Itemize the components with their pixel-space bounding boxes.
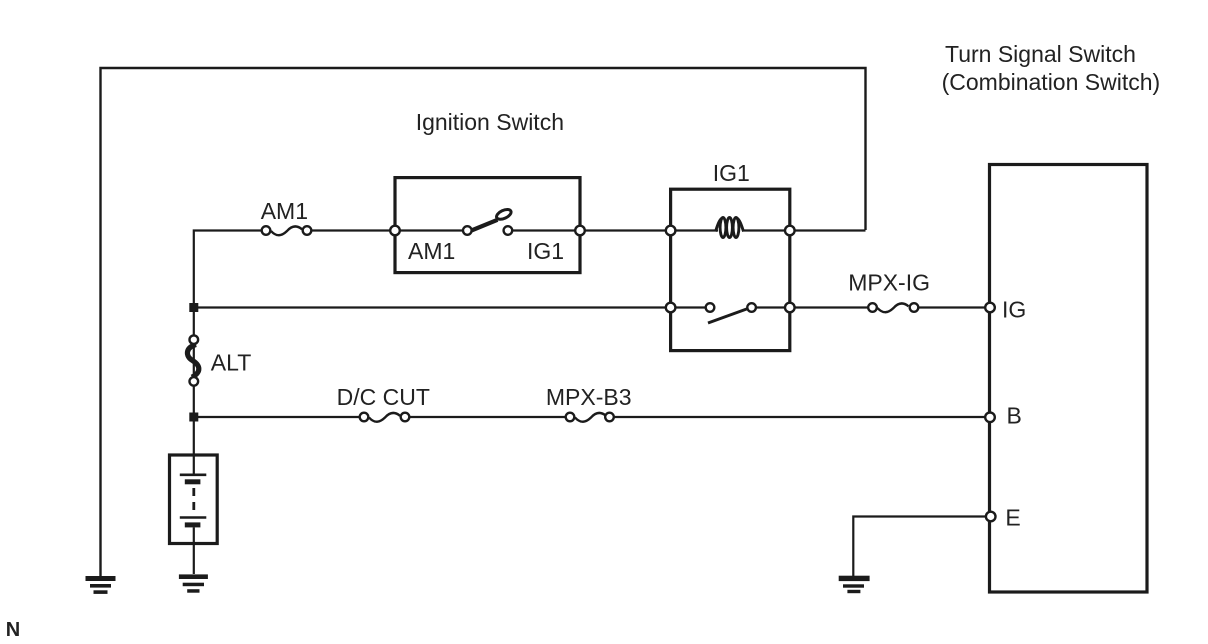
svg-text:MPX-IG: MPX-IG — [848, 270, 930, 296]
svg-text:AM1: AM1 — [261, 198, 308, 224]
svg-text:D/C CUT: D/C CUT — [337, 384, 430, 410]
wire row1 inside ignition box — [395, 229, 467, 231]
ground (battery) — [179, 574, 208, 592]
relay coil symbol — [716, 218, 744, 238]
terminal B — [985, 413, 995, 423]
fuse D/C CUT symbol — [360, 413, 410, 422]
wire row1 from ignition box to IG1 box coil — [508, 229, 718, 231]
svg-text:IG1: IG1 — [527, 238, 564, 264]
wire top loop from left ground up and across to right — [101, 68, 866, 576]
svg-text:N: N — [6, 619, 20, 641]
IG1 box terminals row2 — [666, 303, 795, 313]
IG1 relay box — [671, 189, 790, 350]
ground (E terminal) — [839, 576, 870, 594]
fusible link ALT — [187, 335, 198, 385]
wire row1 left segment to AM1 fuse — [194, 231, 261, 456]
svg-text:Turn Signal Switch: Turn Signal Switch — [945, 41, 1136, 67]
svg-text:AM1: AM1 — [408, 238, 455, 264]
terminal IG — [985, 303, 995, 313]
wire row2 from left junction to IG1 box — [194, 306, 710, 308]
svg-text:Ignition Switch: Ignition Switch — [416, 109, 564, 135]
battery — [170, 455, 218, 574]
junction dot row3 — [189, 413, 198, 422]
svg-text:ALT: ALT — [211, 350, 251, 376]
ignition switch terminals — [390, 226, 585, 236]
svg-text:(Combination Switch): (Combination Switch) — [942, 69, 1161, 95]
wire row3 from left junction to D/C CUT fuse — [194, 416, 359, 418]
turn signal switch (combination switch) box — [990, 165, 1148, 593]
wire row3 from MPX-B3 to B terminal — [615, 416, 991, 418]
wire row1 from coil to top-loop corner — [742, 229, 866, 231]
wire row3 from D/C CUT to MPX-B3 fuse — [410, 416, 565, 418]
wire row1 from AM1 fuse to ignition switch box — [312, 229, 395, 231]
svg-text:B: B — [1007, 403, 1022, 429]
IG1 box terminals row1 — [666, 226, 795, 236]
svg-text:IG: IG — [1002, 296, 1026, 322]
fuse MPX-IG symbol — [868, 303, 918, 312]
fuse AM1 symbol — [262, 226, 312, 235]
ignition switch box — [395, 178, 580, 273]
ground (left, under top loop) — [86, 576, 116, 594]
wire row2 from IG1 box to MPX-IG fuse — [752, 306, 869, 308]
svg-text:E: E — [1005, 504, 1020, 530]
svg-text:IG1: IG1 — [713, 160, 750, 186]
wire row2 from MPX-IG fuse to IG terminal — [919, 306, 990, 308]
fuse MPX-B3 symbol — [566, 413, 614, 422]
wire from E terminal to ground — [853, 517, 990, 577]
ignition switch lever — [467, 207, 513, 232]
svg-text:MPX-B3: MPX-B3 — [546, 384, 632, 410]
relay switch blade — [708, 309, 748, 324]
junction dot row2 — [189, 303, 198, 312]
terminal E — [986, 512, 996, 522]
